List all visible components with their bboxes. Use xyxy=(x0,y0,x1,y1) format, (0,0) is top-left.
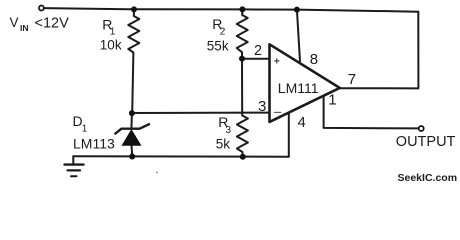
svg-text:SeekIC.com: SeekIC.com xyxy=(398,172,458,184)
svg-text:<12V: <12V xyxy=(35,16,70,32)
svg-text:8: 8 xyxy=(310,51,318,68)
svg-text:LM111: LM111 xyxy=(278,80,319,96)
svg-text:3: 3 xyxy=(258,98,266,115)
svg-text:1: 1 xyxy=(328,92,336,109)
svg-text:7: 7 xyxy=(348,71,356,88)
svg-text:2: 2 xyxy=(254,43,262,59)
svg-text:5k: 5k xyxy=(216,137,231,152)
svg-text:OUTPUT: OUTPUT xyxy=(396,134,456,150)
svg-text:2: 2 xyxy=(220,27,226,38)
svg-text:10k: 10k xyxy=(100,38,122,53)
svg-text:4: 4 xyxy=(298,114,306,131)
svg-text:55k: 55k xyxy=(207,38,229,53)
svg-text:LM113: LM113 xyxy=(73,135,115,151)
svg-text:1: 1 xyxy=(82,124,88,135)
svg-text:3: 3 xyxy=(226,125,232,136)
svg-text:IN: IN xyxy=(20,23,29,33)
svg-text:V: V xyxy=(10,15,19,30)
svg-text:1: 1 xyxy=(110,27,116,38)
